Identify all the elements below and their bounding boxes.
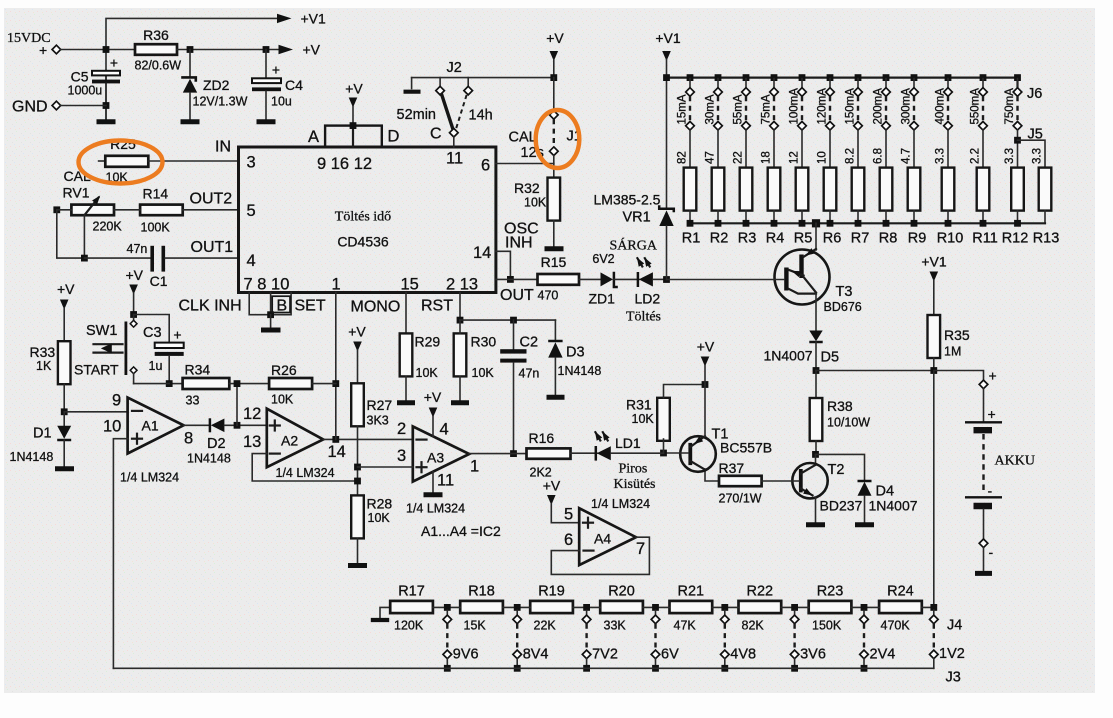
svg-text:10/10W: 10/10W: [827, 416, 870, 430]
op-amp A2: [267, 409, 323, 468]
svg-text:55mA: 55mA: [733, 94, 745, 124]
diode D3 1N4148: [554, 320, 556, 340]
svg-text:R35: R35: [944, 327, 970, 343]
svg-text:A4: A4: [594, 531, 611, 547]
svg-text:550mA: 550mA: [970, 88, 982, 125]
svg-text:8: 8: [184, 430, 193, 448]
junction array bottom col 3: [743, 220, 750, 227]
junction array bottom col 12: [1014, 220, 1021, 227]
svg-text:R22: R22: [746, 584, 773, 600]
svg-text:1/4 LM324: 1/4 LM324: [120, 471, 179, 485]
resistor R24: [879, 601, 922, 613]
resistor R10: [942, 168, 955, 211]
svg-text:10u: 10u: [271, 95, 292, 109]
svg-text:6: 6: [481, 157, 490, 175]
svg-text:150mA: 150mA: [845, 88, 857, 125]
LD1 light arrows: [595, 432, 600, 440]
svg-text:10K: 10K: [368, 511, 391, 525]
junction R27/A3 pin3: [354, 464, 361, 471]
wire ZD1 to LD2: [614, 278, 639, 280]
svg-text:R33: R33: [30, 344, 56, 360]
junction array bottom col 6: [827, 220, 834, 227]
resistor R18: [460, 601, 503, 613]
svg-text:R24: R24: [887, 584, 914, 600]
svg-text:D5: D5: [821, 350, 840, 366]
svg-text:R2: R2: [710, 231, 729, 247]
junction A2 feedback tie: [354, 478, 361, 485]
svg-text:SW1: SW1: [86, 323, 117, 339]
svg-text:R32: R32: [514, 180, 540, 196]
svg-text:+V: +V: [303, 42, 321, 58]
svg-text:1/4 LM324: 1/4 LM324: [591, 497, 650, 511]
LED LD1 (discharge, red): [595, 446, 598, 461]
svg-text:D3: D3: [566, 345, 585, 361]
svg-text:Piros: Piros: [619, 462, 648, 477]
capacitor C4 (electrolytic): [265, 50, 267, 79]
GND terminal diamond: [52, 101, 61, 110]
svg-text:15K: 15K: [464, 619, 487, 633]
svg-text:47n: 47n: [519, 367, 540, 381]
svg-text:C3: C3: [143, 325, 162, 341]
junction bus left: [663, 74, 670, 81]
svg-text:A1: A1: [142, 418, 159, 434]
svg-text:22K: 22K: [534, 619, 557, 633]
svg-text:2.2: 2.2: [970, 148, 982, 164]
svg-text:+V: +V: [546, 30, 564, 46]
svg-text:ZD2: ZD2: [203, 77, 230, 93]
junction R33/D1/pin9: [61, 408, 68, 415]
resistor R17: [390, 601, 433, 613]
svg-text:3: 3: [247, 154, 256, 172]
svg-text:OUT2: OUT2: [190, 191, 233, 208]
svg-text:R34: R34: [185, 362, 211, 378]
resistor R38: [815, 371, 817, 399]
label B (boxed): [272, 296, 290, 312]
svg-text:R12: R12: [1002, 231, 1029, 247]
svg-text:J6: J6: [1027, 86, 1042, 102]
bottom feedback rail: [113, 667, 933, 669]
battery + terminal: [934, 371, 984, 381]
svg-text:Kisütés: Kisütés: [614, 477, 656, 492]
svg-text:T3: T3: [836, 284, 853, 300]
wire A3 pin3 from divider: [358, 466, 413, 468]
svg-text:OUT1: OUT1: [191, 239, 234, 256]
junction bus col 8: [883, 74, 890, 81]
svg-text:R7: R7: [851, 231, 870, 247]
svg-text:3.3: 3.3: [1004, 148, 1016, 164]
resistor R23: [809, 601, 852, 613]
svg-text:1u: 1u: [149, 359, 163, 373]
svg-text:3V6: 3V6: [800, 647, 826, 663]
resistor R33: [58, 341, 71, 384]
wire R15 to ZD1: [579, 278, 601, 280]
svg-text:270/1W: 270/1W: [719, 492, 762, 506]
wire GND terminal to C5: [61, 105, 106, 107]
wire IC pin 6 to R32: [496, 163, 554, 165]
ground bar under C5: [97, 119, 116, 124]
svg-text:A3: A3: [427, 450, 444, 466]
pushbutton SW1 START: [133, 315, 135, 321]
svg-text:CAL: CAL: [509, 130, 537, 146]
svg-text:1N4148: 1N4148: [187, 452, 231, 466]
jumper J1: [553, 78, 555, 111]
junction D5/R38: [813, 367, 820, 374]
svg-text:+V1: +V1: [655, 30, 681, 46]
transistor T3 BD676: [775, 250, 830, 305]
resistor R15: [538, 274, 580, 285]
svg-text:1K: 1K: [36, 359, 52, 373]
ground at pin 8: [261, 328, 281, 333]
resistor R2: [712, 168, 725, 211]
junction array bottom col 7: [855, 220, 862, 227]
resistor R14: [140, 205, 183, 216]
svg-text:82K: 82K: [742, 619, 765, 633]
junction RV1 left terminal: [53, 206, 60, 213]
diode D4 1N4007: [816, 454, 865, 480]
svg-text:+: +: [272, 62, 280, 78]
orange marker ellipse around J1: [536, 110, 580, 168]
svg-text:R19: R19: [538, 584, 565, 600]
svg-text:14: 14: [473, 244, 491, 262]
svg-text:J4: J4: [947, 618, 962, 634]
svg-text:+V: +V: [543, 478, 561, 494]
svg-text:10: 10: [817, 151, 829, 164]
node R13 branch: [1014, 137, 1021, 144]
junction C2 bottom on A3 out: [510, 450, 517, 457]
diode D2 1N4148: [209, 418, 212, 432]
junction bus col 2: [715, 74, 722, 81]
junction MONO/A2 out: [332, 436, 339, 443]
svg-text:12: 12: [243, 405, 261, 423]
wire R25 to IC pin 3: [148, 160, 238, 162]
svg-text:2 13: 2 13: [446, 276, 478, 294]
junction D2/A2 pin12/R34 drop: [234, 422, 241, 429]
svg-text:9: 9: [112, 392, 121, 410]
svg-text:5: 5: [564, 506, 573, 524]
junction bus col 10: [945, 74, 952, 81]
svg-text:12V/1.3W: 12V/1.3W: [193, 95, 248, 109]
svg-text:Töltés idő: Töltés idő: [335, 210, 391, 225]
wire D5 node to R35 node: [816, 370, 934, 372]
svg-text:+V: +V: [126, 267, 144, 283]
resistor R25 (open lead, circled): [99, 160, 106, 162]
svg-text:10: 10: [103, 418, 121, 436]
wire A1 output: [184, 424, 210, 426]
junction bus col 1: [687, 74, 694, 81]
svg-text:C: C: [430, 126, 442, 143]
jumper 100mA: [798, 79, 807, 168]
junction R38/T2 collector: [812, 451, 819, 458]
svg-text:LD2: LD2: [635, 291, 661, 307]
svg-text:5: 5: [247, 202, 256, 220]
jumper tap 3V6: [790, 604, 799, 672]
svg-text:R4: R4: [766, 231, 785, 247]
junction bus col 7: [855, 74, 862, 81]
svg-text:33K: 33K: [604, 619, 627, 633]
svg-text:A: A: [308, 128, 319, 146]
svg-text:10K: 10K: [524, 196, 547, 210]
junction wiper/OUT1: [81, 255, 88, 262]
ground at R17: [380, 607, 390, 617]
wire A4 pin5: [551, 522, 579, 524]
svg-text:SET: SET: [295, 298, 326, 315]
svg-text:6V2: 6V2: [592, 252, 614, 266]
resistor R27: [351, 383, 364, 426]
svg-text:9 16 12: 9 16 12: [317, 155, 372, 173]
junction chain end at right vertical: [930, 604, 937, 611]
diode D5 1N4007: [815, 294, 817, 331]
svg-text:120mA: 120mA: [817, 88, 829, 125]
junction array bottom col 9: [911, 220, 918, 227]
junction at ZD2 top: [187, 46, 194, 53]
wire A1 pin 10 feedback from divider: [113, 439, 127, 669]
+V1 arrow: [662, 51, 671, 61]
svg-text:R13: R13: [1033, 231, 1060, 247]
svg-text:22: 22: [733, 151, 745, 164]
svg-text:100mA: 100mA: [789, 88, 801, 125]
wire to C3 top: [134, 315, 170, 343]
svg-text:R18: R18: [468, 584, 495, 600]
jumper tap 6V: [651, 604, 660, 672]
resistor R30: [454, 333, 467, 376]
switch 52min contact: [439, 78, 441, 87]
svg-text:D2: D2: [207, 436, 226, 452]
junction GND row: [103, 102, 110, 109]
svg-text:3K3: 3K3: [367, 414, 389, 428]
junction C2 top: [510, 317, 517, 324]
svg-text:12: 12: [789, 151, 801, 164]
svg-text:C1: C1: [150, 273, 168, 289]
ground under R32: [545, 246, 564, 251]
svg-text:6V: 6V: [661, 647, 679, 663]
svg-text:-: -: [989, 544, 994, 560]
svg-text:R16: R16: [529, 430, 555, 446]
svg-text:300mA: 300mA: [901, 88, 913, 125]
svg-text:75mA: 75mA: [761, 94, 773, 124]
svg-text:82/0.6W: 82/0.6W: [135, 59, 182, 73]
svg-text:D: D: [388, 128, 400, 146]
svg-text:+V: +V: [345, 81, 363, 97]
svg-text:R3: R3: [738, 231, 757, 247]
LD2 light arrows: [637, 258, 642, 266]
svg-text:R8: R8: [879, 231, 898, 247]
svg-text:LM385-2.5: LM385-2.5: [594, 192, 661, 208]
svg-text:1N4007: 1N4007: [764, 348, 813, 364]
junction R35 bottom: [930, 367, 937, 374]
resistor R28: [351, 495, 364, 538]
svg-text:R20: R20: [608, 584, 635, 600]
svg-text:T2: T2: [828, 462, 845, 478]
switch common C contact: [450, 128, 459, 137]
svg-text:14: 14: [328, 443, 346, 461]
svg-text:R11: R11: [972, 231, 998, 247]
svg-text:R6: R6: [823, 231, 842, 247]
svg-text:C4: C4: [285, 77, 303, 93]
svg-text:1/4 LM324: 1/4 LM324: [406, 502, 465, 516]
resistor R31: [657, 398, 670, 441]
svg-text:10K: 10K: [416, 366, 439, 380]
resistor R35: [928, 315, 941, 358]
wire A2 output to A3: [323, 438, 413, 440]
svg-text:1000u: 1000u: [68, 84, 103, 98]
resistor R22: [739, 601, 782, 613]
jumper tap 9V6: [443, 604, 452, 672]
junction R31/T1 base: [660, 450, 667, 457]
svg-text:+V: +V: [424, 389, 442, 405]
switch dashed arm (14h position): [456, 95, 466, 128]
svg-text:BD237: BD237: [820, 498, 863, 514]
svg-text:J2: J2: [447, 60, 462, 76]
svg-text:GND: GND: [12, 99, 48, 116]
svg-text:1N4007: 1N4007: [869, 498, 918, 514]
jumper J4 1V2: [933, 610, 935, 615]
right main vertical: [933, 371, 935, 608]
svg-text:R38: R38: [827, 398, 853, 414]
svg-text:R29: R29: [415, 334, 441, 350]
wire J2 top rail: [412, 77, 554, 79]
wire C5 bottom / GND row: [105, 83, 107, 119]
svg-text:14h: 14h: [469, 108, 493, 124]
junction at C4 top: [263, 46, 270, 53]
junction T3 emitter to array: [812, 219, 820, 227]
op IC body CD4536: [239, 147, 496, 293]
svg-text:1M: 1M: [944, 345, 961, 359]
wire A2 feedback loop pin13: [252, 454, 357, 481]
svg-text:18: 18: [761, 151, 773, 164]
svg-text:4V8: 4V8: [730, 647, 756, 663]
jumper 400mA: [944, 79, 953, 168]
zener diode ZD2: [189, 50, 191, 76]
wire R27 to divider node (crosses pin2 wire): [357, 426, 359, 495]
junction bus col 5: [799, 74, 806, 81]
svg-text:IN: IN: [215, 139, 231, 156]
arrowhead +V1: [277, 14, 292, 23]
svg-text:+V: +V: [348, 324, 366, 340]
svg-text:AKKU: AKKU: [995, 454, 1035, 469]
svg-text:1V2: 1V2: [939, 646, 965, 662]
jumper 550mA: [979, 79, 988, 168]
jumper tap 8V4: [513, 604, 522, 672]
wire IC pin1 MONO vertical: [335, 293, 337, 440]
svg-text:7V2: 7V2: [592, 647, 618, 663]
svg-text:13: 13: [243, 433, 261, 451]
wire RV1 wiper drop: [83, 215, 85, 258]
jumper tap 7V2: [582, 604, 591, 672]
capacitor C1: [84, 257, 150, 259]
svg-text:4.7: 4.7: [901, 148, 913, 164]
svg-text:220K: 220K: [93, 220, 123, 234]
wire to A1 pin 9: [64, 411, 127, 413]
LED LD2 (charge, yellow): [637, 272, 640, 287]
svg-text:R14: R14: [143, 186, 169, 202]
svg-text:LD1: LD1: [615, 435, 641, 451]
svg-text:C5: C5: [71, 69, 89, 85]
svg-text:R31: R31: [626, 397, 652, 413]
jumper 150mA: [854, 79, 863, 168]
IC pin 2/13 stub: [459, 293, 461, 321]
wire divider chain: [433, 606, 934, 608]
junction LED/VR1/T3 base: [663, 276, 670, 283]
resistor R9: [908, 168, 921, 211]
junction array bottom col 11: [980, 220, 987, 227]
svg-text:+: +: [110, 55, 118, 71]
jumper 75mA: [770, 79, 779, 168]
A3 pin11 ground: [432, 472, 434, 493]
svg-text:OUT: OUT: [500, 287, 534, 304]
resistor R13: [1039, 168, 1052, 211]
svg-text:400mA: 400mA: [935, 88, 947, 125]
resistor R6: [824, 168, 837, 211]
resistor R3: [740, 168, 753, 211]
resistor R12: [1011, 168, 1024, 211]
svg-text:BD676: BD676: [824, 300, 862, 314]
svg-text:SÁRGA: SÁRGA: [610, 237, 658, 254]
svg-text:+V1: +V1: [301, 11, 327, 27]
resistor R32: [548, 178, 561, 221]
svg-text:52min: 52min: [397, 107, 437, 123]
svg-text:82: 82: [677, 151, 689, 164]
svg-text:11: 11: [446, 150, 463, 168]
junction array bottom col 10: [945, 220, 952, 227]
svg-text:6: 6: [564, 531, 573, 549]
wire R36 to +V arrow: [177, 49, 279, 51]
junction bus col 12: [1014, 74, 1021, 81]
jumper tap 2V4: [860, 604, 869, 672]
15VDC input terminal: [52, 45, 61, 54]
svg-text:R21: R21: [677, 584, 704, 600]
resistor R21: [670, 601, 713, 613]
resistor R34: [169, 383, 182, 385]
switch 14h contact: [467, 78, 469, 87]
svg-text:R27: R27: [367, 397, 393, 413]
junction MONO/R26: [332, 380, 339, 387]
svg-text:11: 11: [437, 472, 454, 490]
resistor R36: [135, 44, 177, 55]
svg-text:BC557B: BC557B: [720, 440, 772, 456]
svg-text:R30: R30: [471, 334, 497, 350]
resistor R11: [977, 168, 990, 211]
op-amp A3: [413, 426, 469, 481]
svg-text:+: +: [173, 327, 181, 343]
IC pin 14 stub: [496, 251, 511, 279]
wire OUT to R15: [496, 278, 538, 280]
jumper 200mA: [882, 79, 891, 168]
svg-text:7: 7: [636, 540, 645, 558]
voltage reference VR1 LM385-2.5: [666, 78, 668, 209]
junction array bottom col 5: [799, 220, 806, 227]
resistor R20: [600, 601, 643, 613]
A/D divider box on IC top: [325, 126, 382, 147]
junction array bottom col 4: [771, 220, 778, 227]
svg-text:47K: 47K: [674, 619, 697, 633]
svg-text:4: 4: [440, 421, 449, 439]
svg-text:3.3: 3.3: [935, 148, 947, 164]
resistor R16: [527, 448, 571, 458]
wire R16 to LD1: [571, 452, 598, 454]
svg-text:R15: R15: [541, 254, 567, 270]
jumper 30mA: [714, 79, 723, 168]
svg-text:6.8: 6.8: [873, 148, 885, 164]
svg-text:10K: 10K: [271, 393, 294, 407]
svg-text:1/4 LM324: 1/4 LM324: [276, 466, 335, 480]
svg-text:9V6: 9V6: [453, 647, 479, 663]
wire A3 output to R16: [469, 453, 526, 455]
svg-text:+V: +V: [697, 339, 715, 355]
jumper 300mA: [910, 79, 919, 168]
capacitor C2: [513, 320, 515, 349]
junction R34/R26/A2+: [234, 380, 241, 387]
svg-text:Töltés: Töltés: [626, 310, 661, 325]
